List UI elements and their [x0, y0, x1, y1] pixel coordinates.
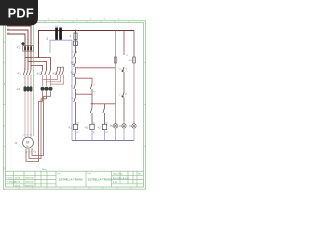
K3 column wire: [103, 104, 105, 124]
fuse on lamp feed: [114, 57, 117, 63]
fuse block F1 (3-pole): [23, 44, 34, 53]
contact labels: [119, 55, 130, 97]
svg-text:-S0: -S0: [70, 62, 74, 65]
start button S1: [73, 72, 76, 84]
H3 feed wire with fuse F4: [133, 31, 136, 122]
neutral bus N (blue): [72, 140, 134, 142]
PE wire (green): [33, 23, 35, 137]
svg-text:26/07/02: 26/07/02: [25, 182, 34, 184]
PDF badge: [0, 0, 38, 26]
contactor KM3 main contacts: [56, 70, 64, 75]
rail label smudges: [71, 85, 74, 101]
svg-text:26/07/02: 26/07/02: [25, 177, 34, 179]
title block table: [6, 171, 144, 187]
phase wires below fuse: [25, 53, 31, 71]
coil K3: [97, 124, 107, 129]
svg-text:ESTRELLA-TRIANG: ESTRELLA-TRIANG: [88, 178, 112, 182]
aux contact on lamp column: [122, 67, 124, 121]
drawing frame outer border: [4, 21, 146, 190]
wires below KM2: [43, 75, 51, 86]
svg-text:M: M: [26, 140, 29, 144]
rail contact (timer): [74, 84, 76, 124]
thermal NC contact 95-96: [74, 52, 77, 62]
svg-text:Lug: Lug: [88, 173, 91, 175]
wires below KM1: [25, 75, 31, 86]
svg-text:10.09: 10.09: [15, 186, 21, 188]
title block bottom ticks: [19, 187, 131, 189]
lamp H1: [113, 121, 117, 128]
lamp H3: [132, 121, 136, 128]
delta return wires KM2 to motor: [26, 91, 51, 161]
supply wire L1: [7, 26, 31, 44]
junction node at control rail: [75, 30, 77, 32]
KM1 aux contact 13-14: [90, 84, 92, 94]
neutral drop wire N (blue vertical): [71, 40, 73, 140]
motor M1: [23, 137, 34, 148]
svg-text:A2: A2: [77, 131, 79, 134]
svg-text:10.09: 10.09: [15, 177, 21, 179]
lamp branch wire from bus: [123, 31, 125, 56]
stop button S0: [73, 62, 76, 72]
coil K2: [85, 124, 95, 129]
branch wire to lamps (after stop): [76, 67, 116, 69]
delta contactor lower contacts KM2: [41, 87, 53, 91]
supply wire L3: [7, 34, 25, 44]
svg-text:-M: -M: [15, 142, 18, 145]
frame column ticks top: [17, 21, 129, 23]
contactor KM2 main contacts: [41, 70, 51, 75]
svg-text:Inst: Inst: [58, 172, 61, 175]
svg-text:10.09: 10.09: [15, 182, 21, 184]
svg-text:Hoja 8.00: Hoja 8.00: [113, 174, 123, 176]
enclosure boundary (blue) top edge: [50, 40, 72, 53]
svg-text:-K2: -K2: [85, 127, 89, 130]
lamp H2: [122, 121, 126, 128]
svg-text:Num: Num: [42, 169, 47, 171]
title text ESTRELLA cells: [59, 178, 112, 182]
svg-text:PDF: PDF: [8, 5, 34, 20]
svg-text:-K2: -K2: [36, 73, 40, 76]
svg-text:-K1: -K1: [17, 73, 21, 76]
svg-text:-H3: -H3: [129, 125, 134, 128]
svg-text:C: C: [4, 125, 6, 128]
terminal block X1 black bars: [55, 28, 62, 41]
95 96 labels: [72, 52, 75, 60]
motor winding terminal labels: [25, 152, 37, 154]
svg-text:ESTRELLA-TRIANG: ESTRELLA-TRIANG: [59, 178, 83, 182]
KM1 pin number smudges: [24, 69, 33, 80]
svg-text:-K1: -K1: [68, 127, 72, 130]
control bus wire L: [39, 31, 135, 58]
disconnect switch handle Q1: [21, 42, 25, 46]
svg-text:-K3: -K3: [97, 127, 101, 130]
supply wire L2: [7, 30, 28, 44]
13 14 labels: [93, 85, 96, 94]
svg-text:-S1: -S1: [70, 72, 74, 75]
svg-text:A2: A2: [106, 131, 108, 134]
bus branch wires to contactors: [25, 58, 51, 71]
svg-text:-K3: -K3: [52, 73, 56, 76]
column number microtext: [48, 18, 134, 21]
coil/lamp neutral tails: [76, 128, 135, 141]
motor terminal labels: [23, 135, 34, 137]
wires below KM3 joining delta columns: [43, 75, 64, 84]
frame row ticks left/right borders: [4, 63, 146, 147]
thermal relay F2: [24, 86, 33, 91]
contactor KM1 main contacts: [23, 70, 31, 75]
coil K1: [68, 124, 78, 129]
svg-text:ESTRELLA-TRI: ESTRELLA-TRI: [113, 177, 129, 180]
svg-text:Fecha: Fecha: [7, 177, 14, 179]
holding circuit branch wire: [76, 78, 93, 84]
K2 column wire: [90, 94, 92, 124]
coil pin labels: [77, 121, 108, 134]
star point bracket: [58, 67, 64, 70]
motor feed wires U1 V1 W1: [25, 92, 31, 138]
fuse pin labels: [24, 43, 32, 45]
frame row letters: [4, 41, 6, 170]
svg-text:A2: A2: [93, 131, 95, 134]
title block texts: [7, 169, 142, 188]
svg-text:-H1: -H1: [110, 125, 115, 128]
control rail fuse F3: [74, 31, 78, 53]
svg-text:-H2: -H2: [119, 125, 124, 128]
holding rejoin wire: [76, 93, 93, 95]
coil feed bus wire: [91, 103, 116, 105]
svg-text:D: D: [4, 167, 6, 170]
supply terminal labels: [7, 24, 10, 34]
